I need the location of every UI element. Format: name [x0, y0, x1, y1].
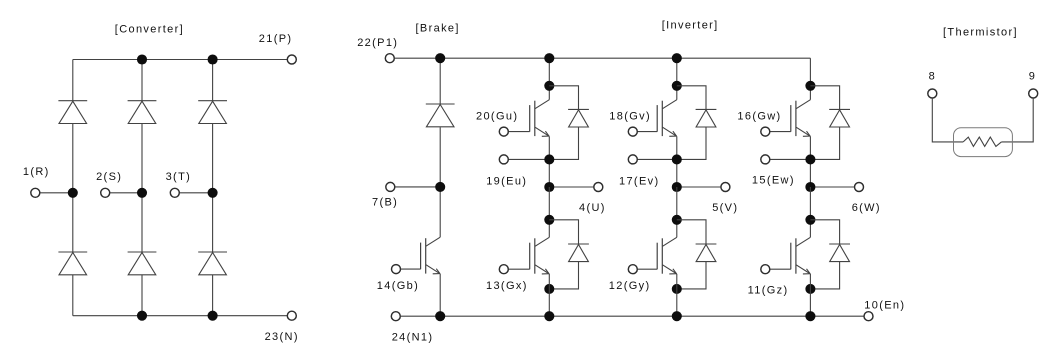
junction dot leg U output — [544, 182, 554, 192]
svg-text:7(B): 7(B) — [372, 196, 398, 208]
wire terminal 17(Ev) to rail — [633, 158, 677, 160]
wire P bus top — [394, 57, 810, 59]
terminal 10(En) — [864, 312, 873, 321]
svg-text:11(Gz): 11(Gz) — [748, 285, 789, 297]
svg-text:23(N): 23(N) — [265, 331, 299, 343]
svg-text:14(Gb): 14(Gb) — [377, 280, 419, 292]
wire thermistor left lead — [932, 98, 963, 142]
junction dot top bus leg V — [672, 53, 682, 63]
wire leg U lower diode branch top — [549, 220, 578, 244]
junction dot leg U lower diode split — [544, 215, 554, 225]
transistor brake IGBT — [426, 237, 440, 246]
transistor IGBT upper U — [535, 100, 549, 109]
svg-text:16(Gw): 16(Gw) — [737, 111, 781, 123]
wire converter rail 1(R) lower — [72, 275, 74, 316]
wire terminal 19(Eu) to rail — [504, 158, 550, 160]
wire terminal 2(S) to rail — [105, 192, 142, 194]
resistor thermistor zigzag — [963, 137, 1001, 146]
svg-text:2(S): 2(S) — [96, 171, 122, 183]
wire leg U rail middle — [548, 187, 550, 237]
wire inverter leg W rail top — [809, 58, 811, 99]
wire converter rail 2(S) lower — [141, 275, 143, 316]
terminal 1(R) — [31, 188, 40, 197]
wire inverter leg V rail top — [676, 58, 678, 99]
svg-text:20(Gu): 20(Gu) — [476, 111, 518, 123]
svg-text:4(U): 4(U) — [579, 202, 606, 214]
wire leg W emitter to sense node — [809, 136, 811, 187]
svg-text:15(Ew): 15(Ew) — [752, 175, 795, 187]
transistor IGBT lower W — [796, 237, 810, 246]
junction dot leg U bottom bus — [544, 311, 554, 321]
wire terminal 7(B) to rail — [390, 186, 440, 188]
terminal 23(N) — [287, 311, 296, 320]
wire leg W rail middle — [809, 187, 811, 237]
terminal 2(S) — [101, 188, 110, 197]
junction dot rail 3(T) middle — [208, 188, 218, 198]
wire leg U emitter to N bus — [548, 274, 550, 316]
wire leg V lower diode branch top — [677, 220, 706, 244]
wire thermistor right lead — [1001, 98, 1033, 142]
diode freewheel upper U — [568, 108, 589, 110]
svg-text:9: 9 — [1029, 71, 1036, 83]
wire leg U emitter to sense node — [548, 136, 550, 187]
svg-text:10(En): 10(En) — [864, 299, 905, 311]
wire leg U lower diode branch bottom — [549, 262, 578, 289]
diode freewheel lower W — [829, 243, 850, 245]
junction dot brake top bus — [435, 53, 445, 63]
svg-text:21(P): 21(P) — [259, 33, 293, 45]
svg-text:[Converter]: [Converter] — [115, 23, 184, 35]
svg-text:5(V): 5(V) — [712, 202, 738, 214]
diode converter lower phase 2(S) — [128, 251, 157, 253]
wire output 6(W) — [810, 186, 854, 188]
junction dot top bus leg U — [544, 53, 554, 63]
wire converter rail 1(R) middle — [72, 124, 74, 253]
wire leg V rail middle — [676, 187, 678, 237]
svg-text:17(Ev): 17(Ev) — [619, 176, 660, 188]
wire converter rail 3(T) upper — [212, 60, 214, 101]
terminal 5(V) — [721, 183, 730, 192]
svg-text:24(N1): 24(N1) — [392, 331, 434, 343]
diode converter lower phase 1(R) — [58, 251, 87, 253]
terminal 7(B) — [386, 182, 395, 191]
svg-text:6(W): 6(W) — [852, 202, 881, 214]
junction dot brake bottom bus — [435, 311, 445, 321]
terminal 3(T) — [170, 188, 179, 197]
wire N bus bottom — [400, 315, 864, 317]
wire converter rail 2(S) upper — [141, 60, 143, 101]
diode freewheel lower V — [696, 243, 717, 245]
wire brake emitter to N bus — [439, 274, 441, 316]
wire converter rail 3(T) lower — [212, 275, 214, 316]
thermistor body outline — [954, 128, 1013, 157]
wire converter rail 1(R) upper — [72, 60, 74, 101]
junction dot converter bottom bus T — [208, 311, 218, 321]
junction dot leg V lower diode join — [672, 284, 682, 294]
diode brake — [426, 103, 455, 105]
wire converter bottom bus — [73, 315, 288, 317]
terminal 15(Ew) — [761, 155, 770, 164]
transistor IGBT upper V — [663, 100, 677, 109]
junction dot converter top bus T — [208, 54, 218, 64]
junction dot leg W output — [805, 182, 815, 192]
diode freewheel upper W — [829, 108, 850, 110]
wire brake rail to 7(B) node — [439, 127, 441, 237]
terminal 24(N1) — [391, 312, 400, 321]
junction dot leg W bottom bus — [805, 311, 815, 321]
diode converter upper phase 3(T) — [198, 100, 227, 102]
wire brake rail upper — [439, 58, 441, 104]
terminal 6(W) — [855, 183, 864, 192]
transistor IGBT lower U — [535, 237, 549, 246]
diode freewheel lower U — [568, 243, 589, 245]
junction dot rail 1(R) middle — [68, 188, 78, 198]
wire inverter leg U rail top — [548, 58, 550, 99]
transistor IGBT lower V — [663, 237, 677, 246]
svg-text:13(Gx): 13(Gx) — [486, 280, 528, 292]
wire terminal 3(T) to rail — [175, 192, 213, 194]
wire converter rail 2(S) middle — [141, 124, 143, 253]
diode converter upper phase 1(R) — [58, 100, 87, 102]
junction dot leg W emitter sense — [805, 154, 815, 164]
terminal 8 — [928, 89, 937, 98]
wire leg W lower diode branch bottom — [810, 262, 839, 289]
wire leg V emitter to N bus — [676, 274, 678, 316]
wire leg W lower diode branch top — [810, 220, 839, 244]
svg-text:19(Eu): 19(Eu) — [486, 176, 527, 188]
svg-text:8: 8 — [929, 71, 936, 83]
junction dot leg W lower diode split — [805, 215, 815, 225]
svg-text:12(Gy): 12(Gy) — [609, 280, 651, 292]
junction dot leg V output — [672, 182, 682, 192]
terminal 17(Ev) — [628, 155, 637, 164]
wire output 4(U) — [549, 186, 594, 188]
wire leg U upper diode branch top — [549, 86, 578, 110]
svg-text:[Brake]: [Brake] — [416, 22, 460, 34]
wire leg V emitter to sense node — [676, 136, 678, 187]
junction dot rail 2(S) middle — [137, 188, 147, 198]
junction dot leg U upper diode split — [544, 81, 554, 91]
wire leg V upper diode branch top — [677, 86, 706, 110]
junction dot leg V lower diode split — [672, 215, 682, 225]
terminal 4(U) — [594, 183, 603, 192]
transistor IGBT upper W — [796, 100, 810, 109]
junction dot leg U emitter sense — [544, 154, 554, 164]
junction dot leg V emitter sense — [672, 154, 682, 164]
svg-text:3(T): 3(T) — [166, 171, 192, 183]
wire leg V upper diode branch bottom — [677, 127, 706, 159]
wire converter rail 3(T) middle — [212, 124, 214, 253]
wire leg W upper diode branch top — [810, 86, 839, 110]
junction dot leg W lower diode join — [805, 284, 815, 294]
junction dot leg V upper diode split — [672, 81, 682, 91]
diode converter lower phase 3(T) — [198, 251, 227, 253]
junction dot converter top bus S — [137, 54, 147, 64]
terminal 21(P) — [287, 55, 296, 64]
junction dot leg U lower diode join — [544, 284, 554, 294]
svg-text:18(Gv): 18(Gv) — [609, 111, 651, 123]
wire leg U upper diode branch bottom — [549, 127, 578, 159]
wire terminal 15(Ew) to rail — [765, 158, 810, 160]
svg-text:22(P1): 22(P1) — [357, 37, 398, 49]
diode converter upper phase 2(S) — [128, 100, 157, 102]
terminal 19(Eu) — [499, 155, 508, 164]
terminal 22(P1) — [385, 54, 394, 63]
svg-text:[Inverter]: [Inverter] — [662, 20, 719, 32]
wire leg W emitter to N bus — [809, 274, 811, 316]
junction dot leg V bottom bus — [672, 311, 682, 321]
junction dot brake 7(B) node — [435, 182, 445, 192]
junction dot leg W upper diode split — [805, 81, 815, 91]
terminal 9 — [1029, 89, 1038, 98]
wire output 5(V) — [677, 186, 721, 188]
wire converter top bus — [73, 59, 288, 61]
wire terminal 1(R) to rail — [35, 192, 73, 194]
svg-text:[Thermistor]: [Thermistor] — [943, 27, 1018, 39]
junction dot converter bottom bus S — [137, 311, 147, 321]
svg-text:1(R): 1(R) — [23, 166, 50, 178]
wire leg V lower diode branch bottom — [677, 262, 706, 289]
wire leg W upper diode branch bottom — [810, 127, 839, 159]
diode freewheel upper V — [696, 108, 717, 110]
